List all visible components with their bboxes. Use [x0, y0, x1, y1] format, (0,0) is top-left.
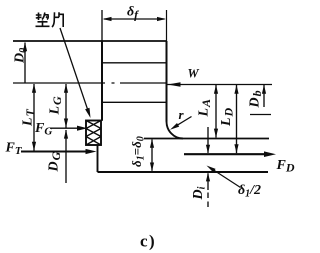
moment arm LA line — [215, 85, 217, 138]
diameter Db arrow — [262, 85, 266, 94]
delta1=delta0 up arrow — [150, 139, 154, 148]
flange ring left edge — [101, 41, 103, 121]
svg-text:r: r — [179, 107, 185, 122]
svg-text:δ1/2: δ1/2 — [238, 183, 261, 200]
svg-text:FT: FT — [5, 141, 23, 158]
bolt force W arrow — [168, 82, 181, 87]
svg-text:c): c) — [140, 232, 155, 251]
svg-text:Db: Db — [248, 90, 265, 108]
extension line above ring right — [166, 10, 168, 41]
gasket leader line — [60, 28, 88, 110]
force FD arrow — [264, 151, 276, 157]
force FD line — [184, 153, 265, 155]
flange ring top edge — [13, 40, 167, 42]
diameter D0 arrow — [23, 42, 27, 51]
LD up arrow — [234, 85, 238, 94]
force FG arrow — [77, 126, 88, 131]
fillet r leader line — [174, 117, 192, 128]
svg-text:LG: LG — [48, 96, 65, 116]
delta1/2 upper extension with down arrow — [207, 127, 209, 153]
bolt hole upper edge — [102, 62, 167, 64]
LG up arrow — [64, 84, 68, 93]
dimension delta_f left arrow — [103, 17, 112, 21]
svg-text:δf: δf — [127, 5, 139, 22]
Di stem dashed continuation — [207, 193, 209, 208]
shell thickness delta1=delta0 dimension line — [151, 140, 153, 171]
gasket leader arrow — [85, 108, 90, 118]
delta1=delta0 down arrow — [150, 163, 154, 172]
moment arm LT line — [33, 84, 35, 151]
svg-text:FD: FD — [276, 158, 295, 175]
gasket crosshatch — [86, 121, 101, 146]
svg-text:D0: D0 — [13, 48, 30, 64]
flange ring right edge — [166, 41, 168, 122]
moment arm LD line — [236, 85, 238, 153]
LD down arrow — [234, 144, 238, 153]
flange face lower vertical edge — [97, 145, 99, 172]
svg-text:δ1=δ0: δ1=δ0 — [129, 136, 147, 167]
diameter D0 stem — [24, 43, 26, 84]
LA up arrow — [214, 85, 218, 94]
force FT arrow — [86, 149, 97, 154]
LT down arrow — [32, 142, 36, 151]
shell top line — [144, 138, 269, 140]
svg-text:FG: FG — [34, 121, 52, 138]
label 垫片 (gasket) hand-drawn glyphs — [36, 12, 64, 27]
LT up arrow — [32, 84, 36, 93]
diameter Db break line — [250, 114, 271, 116]
delta1/2 leader arrow — [207, 166, 216, 173]
bolt hole lower edge — [102, 101, 167, 103]
dimension delta_f line — [104, 18, 165, 20]
extension line above ring left — [101, 10, 103, 41]
bore line (flange and shell inner surface) — [98, 171, 269, 173]
bolt force W line — [168, 84, 273, 86]
svg-text:W: W — [188, 67, 200, 81]
gasket body — [86, 121, 101, 146]
moment arm LG line — [65, 84, 67, 128]
bolt circle line left segment — [13, 82, 87, 84]
force FG line — [50, 127, 80, 129]
svg-text:LD: LD — [219, 107, 236, 127]
svg-text:LA: LA — [197, 99, 214, 118]
diameter Di stem with up arrow — [207, 173, 209, 190]
hub fillet radius r curve — [167, 122, 184, 139]
fillet r leader arrow — [170, 123, 179, 130]
dimension delta_f right arrow — [157, 17, 166, 21]
LG down arrow — [64, 119, 68, 128]
delta1/2 leader line — [212, 169, 241, 188]
bolt circle dash-dot center line — [87, 82, 167, 84]
diameter DG arrow — [64, 130, 68, 139]
svg-text:DG: DG — [47, 151, 64, 172]
diameter DG stem — [65, 130, 67, 183]
force FT line — [21, 151, 87, 153]
svg-text:Di: Di — [191, 186, 208, 200]
LA down arrow — [214, 129, 218, 138]
diameter Db stem — [263, 85, 265, 107]
